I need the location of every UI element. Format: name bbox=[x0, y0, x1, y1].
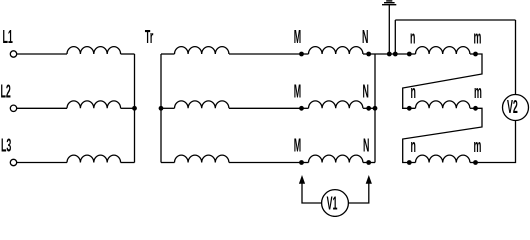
wire winding M-N 3 to node N3 bbox=[363, 162, 369, 164]
node M row 2 bbox=[299, 106, 304, 111]
node M row 3 bbox=[299, 160, 304, 165]
winding M-N row 1 bbox=[309, 47, 363, 54]
wire primary winding 1 to node M1 bbox=[229, 53, 302, 55]
node M row 1 bbox=[299, 52, 304, 57]
wire winding M-N 1 to node N1 bbox=[363, 53, 369, 55]
wire node N2 to neutral bus bbox=[369, 107, 375, 109]
svg-text:M: M bbox=[294, 82, 301, 102]
node N row 3 bbox=[366, 160, 371, 165]
winding n-m row 2 bbox=[416, 101, 470, 108]
wire node M3 to winding M-N 3 bbox=[302, 162, 309, 164]
wire winding M-N 2 to node N2 bbox=[363, 107, 369, 109]
svg-text:n: n bbox=[411, 83, 416, 103]
svg-text:L3: L3 bbox=[1, 136, 11, 156]
node n row 2 bbox=[407, 106, 412, 111]
svg-text:M: M bbox=[294, 28, 301, 48]
wire neutral bus N bbox=[374, 54, 376, 163]
ground bbox=[382, 1, 396, 5]
svg-text:m: m bbox=[474, 83, 482, 103]
wire node N1 to node n1 bbox=[369, 53, 410, 55]
node m row 1 bbox=[473, 52, 478, 57]
svg-text:n: n bbox=[411, 137, 416, 157]
svg-text:N: N bbox=[363, 82, 369, 102]
wire choke L2 to star bus bbox=[121, 107, 135, 109]
wire zigzag m2 to n3 bbox=[403, 108, 482, 162]
wire winding n-m 1 to node m1 bbox=[470, 53, 476, 55]
wire zigzag m1 to n2 bbox=[403, 54, 482, 108]
svg-text:V1: V1 bbox=[327, 194, 338, 214]
transformer Tr primary winding 3 bbox=[175, 155, 229, 162]
wire L3 terminal to choke L3 bbox=[17, 162, 67, 164]
voltmeter V2 bbox=[503, 95, 529, 121]
node n row 1 bbox=[407, 52, 412, 57]
wire L2 terminal to choke L2 bbox=[17, 107, 67, 109]
wire primary winding 2 to node M2 bbox=[229, 107, 302, 109]
wire node M1 to winding M-N 1 bbox=[302, 53, 309, 55]
svg-text:N: N bbox=[362, 28, 368, 48]
wire V1 right lead bbox=[348, 184, 368, 204]
svg-text:Tr: Tr bbox=[145, 28, 154, 48]
wire ground stem bbox=[388, 5, 390, 54]
winding n-m row 1 bbox=[416, 47, 470, 54]
probe arrow V1 at M3 bbox=[299, 175, 305, 184]
svg-text:m: m bbox=[474, 28, 482, 48]
node N row 2 bbox=[366, 106, 371, 111]
wire node m3 to voltmeter V2 bbox=[476, 121, 516, 163]
junction star bus bbox=[132, 106, 137, 111]
inductor choke L3 bbox=[67, 155, 121, 162]
junction top link on row 1 bbox=[393, 52, 398, 57]
svg-text:m: m bbox=[474, 137, 482, 157]
wire primary winding 3 to node M3 bbox=[229, 162, 302, 164]
wire row 1 up to top link bbox=[394, 20, 396, 54]
wire winding n-m 2 to node m2 bbox=[470, 107, 476, 109]
inductor choke L1 bbox=[67, 47, 121, 54]
transformer Tr primary winding 2 bbox=[175, 101, 229, 108]
winding n-m row 3 bbox=[416, 155, 470, 162]
junction neutral bus row 2 bbox=[373, 106, 378, 111]
wire L1 terminal to choke L1 bbox=[17, 53, 67, 55]
inductor choke L2 bbox=[67, 101, 121, 108]
wire node M2 to winding M-N 2 bbox=[302, 107, 309, 109]
wire Tr input bus bbox=[160, 54, 162, 163]
wire top link down to voltmeter V2 bbox=[515, 20, 517, 95]
wire node n1 to winding n-m 1 bbox=[409, 53, 415, 55]
wire choke L3 to star bus bbox=[121, 162, 135, 164]
wire Tr bus to primary winding 1 bbox=[161, 53, 175, 55]
wire node N3 to neutral bus bbox=[369, 162, 375, 164]
junction Tr input bus bbox=[159, 106, 164, 111]
terminal L2 bbox=[10, 105, 16, 111]
probe arrow V1 at N3 bbox=[366, 175, 372, 184]
wire choke L1 to star bus bbox=[121, 53, 135, 55]
svg-text:n: n bbox=[410, 28, 415, 48]
svg-text:N: N bbox=[363, 136, 369, 156]
node m row 2 bbox=[473, 106, 478, 111]
svg-text:L1: L1 bbox=[3, 28, 13, 48]
winding M-N row 2 bbox=[309, 101, 363, 108]
terminal L1 bbox=[10, 51, 16, 57]
terminal L3 bbox=[10, 159, 16, 165]
winding M-N row 3 bbox=[309, 155, 363, 162]
transformer Tr primary winding 1 bbox=[175, 47, 229, 54]
wire star bus of chokes bbox=[134, 54, 136, 163]
svg-text:M: M bbox=[294, 136, 301, 156]
svg-text:V2: V2 bbox=[507, 98, 518, 118]
wire Tr bus to primary winding 2 bbox=[161, 107, 175, 109]
wire V1 left lead bbox=[302, 184, 322, 204]
wire Tr bus to primary winding 3 bbox=[161, 162, 175, 164]
svg-text:L2: L2 bbox=[1, 82, 11, 102]
node m row 3 bbox=[473, 160, 478, 165]
wire winding n-m 3 to node m3 bbox=[470, 162, 476, 164]
wire top link horizontal bbox=[395, 19, 515, 21]
junction ground on row 1 bbox=[387, 52, 392, 57]
node n row 3 bbox=[407, 160, 412, 165]
node N row 1 bbox=[366, 52, 371, 57]
voltmeter V1 bbox=[322, 190, 349, 217]
